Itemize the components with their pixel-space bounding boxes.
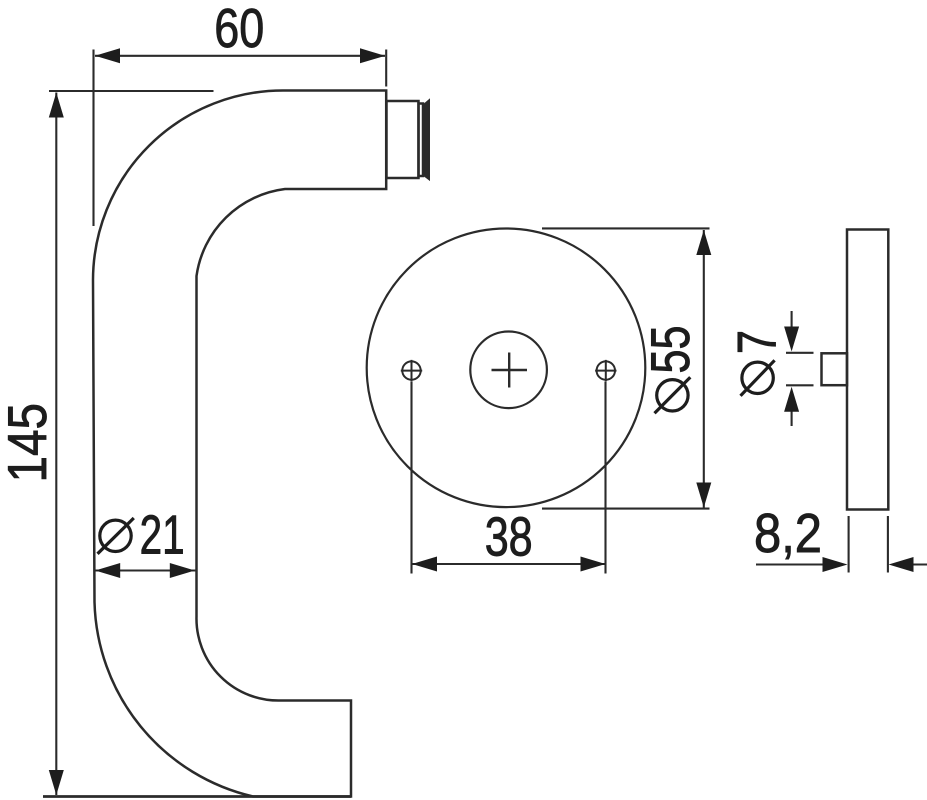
dim Ø21: left arrow [95,563,120,578]
left screw hole [401,360,422,381]
rose side view plate [847,230,888,510]
dim 145: top arrow [49,93,64,118]
svg-text:55: 55 [639,326,701,374]
dim Ø7: top arrow stem [791,311,793,330]
rose front: outer circle [367,228,646,507]
svg-text:38: 38 [485,506,533,568]
svg-text:7: 7 [726,330,788,354]
dim 8,2: left extension line [848,516,850,573]
dim Ø7: top arrow [784,327,799,352]
dim 145: top extension line [49,90,214,92]
dim 38: right extension line [604,382,606,574]
dim 38: left extension line [410,382,412,574]
dim Ø55: bottom arrow [696,483,711,508]
dim 8,2: right arrow [889,557,914,572]
dim 8,2: right stem [911,563,927,565]
dim 38: right arrow [581,557,606,572]
svg-text:8,2: 8,2 [754,502,822,564]
dim Ø7: bottom extension line [786,384,814,386]
dim Ø55: top extension line [542,227,710,229]
rose front: inner circle [470,332,547,409]
dim 8,2: left stem [756,563,826,565]
spindle end cap [424,100,429,180]
label Ø55: diameter symbol [655,377,691,413]
right screw hole [595,360,616,381]
spindle collar [387,101,419,178]
dim 60: dimension line [95,55,385,57]
dim 145: bottom extension line [43,795,351,798]
spindle square on side view [822,353,848,385]
dim 60: left arrow [95,48,120,63]
svg-text:60: 60 [214,0,264,59]
dim 60: left extension line [92,50,94,227]
dim Ø21: dimension line [95,569,196,571]
dim 145: bottom arrow [49,770,64,795]
dim Ø55: dimension line [703,230,705,508]
dim 38: left arrow [412,557,437,572]
label Ø21: diameter symbol [98,518,134,554]
dim Ø7: bottom arrow stem [791,408,793,426]
dim 145: dimension line [55,93,57,796]
svg-text:145: 145 [0,403,58,483]
dim 38: dimension line [412,563,606,565]
dim 60: right extension line [385,50,387,87]
dim 8,2: left arrow [823,557,848,572]
dim Ø55: bottom extension line [542,508,710,510]
dim Ø7: bottom arrow [784,387,799,412]
dim 8,2: right extension line [887,516,889,573]
dim Ø21: right arrow [170,563,195,578]
dim Ø7: top extension line [786,352,814,354]
handle outline (side view of lever) [93,90,386,796]
dim Ø55: top arrow [696,230,711,255]
rose center cross [492,353,528,388]
svg-text:21: 21 [140,504,185,566]
dim 60: right arrow [360,48,385,63]
label Ø7: diameter symbol [741,360,775,396]
spindle ring [419,104,424,177]
